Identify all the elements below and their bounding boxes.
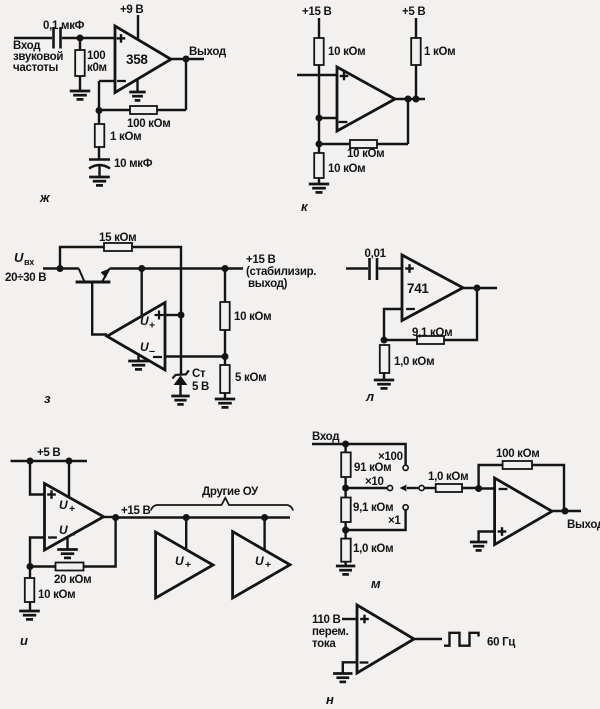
svg-text:5 В: 5 В (192, 381, 209, 393)
svg-text:к0м: к0м (87, 62, 107, 74)
svg-text:1 кОм: 1 кОм (424, 46, 455, 58)
svg-text:тока: тока (312, 638, 336, 650)
svg-text:20÷30 В: 20÷30 В (5, 272, 46, 284)
svg-text:Выход: Выход (189, 46, 227, 58)
svg-text:U: U (255, 554, 264, 568)
svg-text:10 кОм: 10 кОм (328, 163, 365, 175)
svg-text:10 кОм: 10 кОм (38, 589, 75, 601)
svg-text:н: н (326, 692, 334, 707)
svg-text:+15 В: +15 В (246, 254, 276, 266)
svg-text:91 кОм: 91 кОм (354, 462, 391, 474)
svg-text:10 кОм: 10 кОм (328, 46, 365, 58)
svg-text:(стабилизир.: (стабилизир. (246, 266, 316, 278)
svg-text:Другие ОУ: Другие ОУ (202, 486, 259, 498)
svg-text:1 кОм: 1 кОм (110, 131, 141, 143)
svg-text:Выход: Выход (567, 519, 600, 531)
svg-text:0,01: 0,01 (365, 248, 387, 260)
svg-text:10 мкФ: 10 мкФ (114, 158, 153, 170)
svg-text:выход): выход) (248, 278, 288, 290)
svg-text:и: и (20, 633, 28, 648)
svg-text:Ст: Ст (192, 368, 206, 380)
svg-text:+: + (185, 559, 191, 571)
svg-text:U: U (59, 523, 68, 537)
svg-text:1,0 кОм: 1,0 кОм (428, 471, 468, 483)
svg-text:+15 В: +15 В (302, 6, 332, 18)
svg-text:+5 В: +5 В (37, 447, 60, 459)
svg-text:ж: ж (39, 190, 51, 205)
svg-text:частоты: частоты (13, 62, 59, 74)
svg-text:–: – (69, 529, 75, 541)
svg-text:–: – (149, 346, 155, 358)
svg-text:1,0 кОм: 1,0 кОм (353, 543, 393, 555)
svg-text:+: + (265, 559, 271, 571)
svg-text:Вход: Вход (312, 431, 340, 443)
svg-text:+: + (69, 503, 75, 515)
svg-text:м: м (371, 576, 381, 591)
svg-text:100 кОм: 100 кОм (496, 448, 540, 460)
svg-text:+5 В: +5 В (402, 6, 425, 18)
svg-text:20 кОм: 20 кОм (54, 574, 91, 586)
svg-text:358: 358 (126, 52, 148, 67)
svg-text:к: к (301, 199, 309, 214)
svg-text:+9 В: +9 В (120, 4, 143, 16)
svg-text:л: л (365, 389, 374, 404)
svg-text:9,1 кОм: 9,1 кОм (353, 502, 393, 514)
svg-text:0,1 мкФ: 0,1 мкФ (43, 20, 85, 32)
svg-text:10 кОм: 10 кОм (234, 311, 271, 323)
svg-text:з: з (44, 391, 51, 406)
svg-text:U: U (175, 554, 184, 568)
svg-text:5 кОм: 5 кОм (235, 372, 266, 384)
svg-text:×1: ×1 (388, 515, 401, 527)
svg-text:60 Гц: 60 Гц (487, 637, 515, 649)
svg-text:110 В: 110 В (312, 614, 341, 626)
svg-text:U: U (14, 250, 24, 265)
svg-text:вх: вх (24, 257, 34, 267)
svg-text:1,0 кОм: 1,0 кОм (394, 356, 434, 368)
svg-text:перем.: перем. (312, 626, 349, 638)
svg-text:100: 100 (87, 50, 105, 62)
svg-text:U: U (140, 314, 149, 328)
svg-text:9,1 кОм: 9,1 кОм (412, 327, 452, 339)
svg-text:×10: ×10 (365, 476, 384, 488)
svg-text:U: U (59, 498, 68, 512)
svg-text:741: 741 (407, 281, 429, 296)
svg-text:100 кОм: 100 кОм (127, 118, 171, 130)
svg-text:+15 В: +15 В (121, 505, 151, 517)
svg-text:U: U (140, 340, 149, 354)
svg-text:10 кОм: 10 кОм (347, 148, 384, 160)
svg-text:+: + (149, 320, 155, 332)
svg-text:15 кОм: 15 кОм (99, 232, 136, 244)
